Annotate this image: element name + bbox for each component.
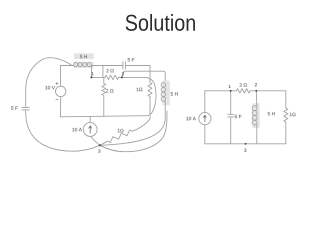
wire: big left loop (top wire to 5F cap): [26, 58, 72, 107]
label 2ohm (vertical resistor): [106, 89, 113, 92]
label 2ohm (horizontal resistor): [106, 69, 113, 72]
wire: top wire from coil to capacitor plate: [92, 65, 123, 67]
node label 3 (left circuit): [98, 149, 100, 152]
label 5H (right coil): [171, 92, 178, 95]
wire: 10A source to node 3: [91, 136, 100, 145]
label 5H (right circuit): [268, 112, 275, 115]
wire: resistor to node 2: [119, 76, 122, 78]
label 5F (right circuit): [235, 115, 242, 118]
wire: 5F branch lower lead: [230, 117, 232, 144]
wire: bottom wire of main loop: [61, 116, 149, 117]
wire: node 2 stub right, curving down (middle S-curve): [122, 77, 156, 114]
label 5H (top): [80, 55, 87, 58]
inductor L2 5H (right vertical coil): [161, 83, 165, 102]
resistor R6 1ohm (right circuit): [284, 108, 288, 122]
node 2 (right circuit): [255, 90, 257, 92]
capacitor C3 5F (right circuit): [228, 114, 234, 117]
wire: from capacitor right plate to right down-turn: [125, 65, 150, 67]
inductor L3 5H (right circuit coil): [252, 106, 257, 125]
label 2ohm (right circuit): [240, 83, 247, 86]
highlight box behind right 5H coil: [162, 81, 170, 106]
node label 2 (left circuit): [122, 72, 124, 75]
wire: below 10V source to bottom-left corner: [60, 97, 62, 117]
inductor L1 5H (top horizontal coil): [74, 63, 92, 67]
minus sign of 10V: [56, 98, 59, 100]
title: Solution: [126, 14, 195, 31]
wire: right vertical above 1-ohm: [285, 91, 287, 108]
highlight box behind 5H label (top): [74, 53, 94, 59]
node 1: [90, 76, 92, 78]
wire: right vertical below 1-ohm: [285, 122, 287, 144]
node label 1 (left circuit): [92, 72, 94, 75]
wire: top wire right segment: [250, 90, 286, 92]
wire: drop from coil end down to node 1: [90, 66, 92, 78]
node 3 (right circuit): [245, 143, 247, 145]
wire: 5H branch lower lead: [256, 125, 258, 144]
wire: left vertical below 10A: [204, 125, 206, 144]
capacitor C1 5F (top): [123, 62, 126, 69]
wire: outer arc from node 3 up right side: [100, 111, 167, 152]
capacitor C2 5F (left): [22, 107, 29, 110]
resistor R3 2ohm (vertical, under node 1): [102, 77, 106, 116]
node label 1 (right circuit): [229, 85, 231, 88]
wire: below right coil: [164, 101, 166, 118]
resistor R4 1ohm (diagonal from node 3): [100, 116, 150, 145]
wire: left vertical above 10A: [204, 91, 206, 113]
wire: 10A riser from bottom wire: [89, 117, 91, 123]
label 1ohm (right circuit): [290, 113, 296, 116]
arrow inside right 10A source: [204, 115, 207, 122]
wire: 5F branch upper lead: [230, 91, 232, 114]
node 3: [99, 144, 101, 146]
labels, left circuit: [11, 55, 178, 132]
wire: 5H branch upper lead: [255, 91, 258, 106]
wire: 1-ohm bottom lead to bottom wire: [148, 97, 150, 116]
current source I1 10A: [83, 123, 97, 137]
label 1ohm (vertical resistor): [136, 88, 142, 91]
wire: node 2 riser and run to right coil: [122, 71, 165, 82]
wire: top wire from top-left corner to coil: [61, 65, 74, 67]
highlight box behind 5H coil (right circuit): [252, 103, 259, 128]
highlight box behind 5H coil (top): [74, 62, 94, 68]
label 1ohm (diagonal resistor): [118, 129, 124, 132]
wire: inner arc from coil bottom to node 3: [100, 119, 165, 146]
node label 2 (right circuit): [255, 83, 257, 86]
wire: 1-ohm top lead from top wire: [149, 66, 151, 83]
resistor R2 1ohm (vertical): [148, 83, 152, 97]
plus sign of 10V: [56, 82, 59, 85]
arrow inside 10A source: [89, 126, 92, 133]
wire: bottom wire of right circuit: [205, 143, 286, 145]
current source I2 10A: [199, 113, 211, 125]
label 10A: [72, 128, 82, 131]
wire: node 1 to 2-ohm resistor: [91, 76, 105, 78]
node 2: [121, 76, 123, 78]
wire: top wire left segment: [205, 90, 237, 92]
wire: left vertical of main loop (top corner to 10V source): [60, 66, 62, 87]
label 10V: [45, 86, 55, 89]
node 1 (right circuit): [230, 90, 232, 92]
voltage source V1 10V: [56, 86, 66, 96]
resistor R1 2ohm (horizontal): [105, 75, 119, 79]
label 5F (left cap): [11, 106, 18, 109]
label 10A (right circuit): [186, 117, 196, 120]
wire: big left loop (5F cap down and around to node 3): [26, 110, 100, 151]
resistor R5 2ohm (top of right circuit): [237, 89, 251, 93]
wire: vertical connector top wire to node-1 wire: [102, 66, 104, 78]
labels, right circuit: [186, 83, 295, 120]
label 5F (top): [128, 58, 135, 61]
node label 3 (right circuit): [244, 149, 246, 152]
